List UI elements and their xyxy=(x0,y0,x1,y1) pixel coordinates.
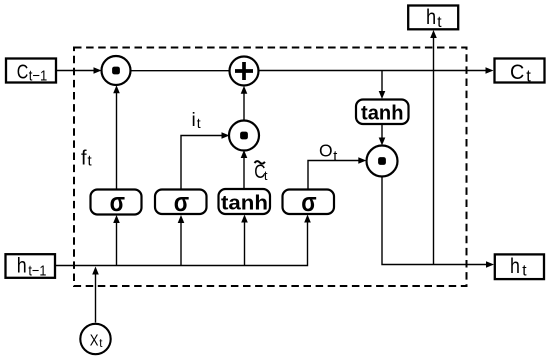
svg-text:f: f xyxy=(81,147,87,169)
box ht top xyxy=(408,6,458,31)
multiply node mult3 xyxy=(367,146,398,177)
box ht bottom xyxy=(495,254,544,279)
node xt xyxy=(80,324,110,354)
gate tanh2 xyxy=(356,100,409,125)
svg-text:t: t xyxy=(333,149,337,165)
box Ct xyxy=(495,59,545,86)
multiply node mult2 xyxy=(229,121,259,151)
svg-text:t: t xyxy=(437,14,442,31)
label ft xyxy=(81,147,93,169)
label it xyxy=(192,110,201,131)
svg-text:t: t xyxy=(197,115,201,131)
label C~t xyxy=(254,160,268,182)
wire mult1 to add xyxy=(131,70,230,72)
dashed cell boundary xyxy=(74,48,467,287)
wire feed sigma2 xyxy=(178,215,185,266)
wire branch down into tanh2 xyxy=(379,71,386,100)
box ht-1 xyxy=(6,254,56,279)
wire add to Ct box xyxy=(259,67,494,74)
svg-text:σ: σ xyxy=(174,188,190,217)
wire mult2 to add xyxy=(241,86,248,122)
wire sigma3 to mult3 xyxy=(308,157,366,189)
box Ct-1 xyxy=(6,59,56,85)
svg-text:X: X xyxy=(90,332,99,349)
label Ot xyxy=(319,141,337,165)
wire feed sigma1 xyxy=(113,215,120,266)
wire mult3 down and right to ht bottom box xyxy=(382,177,494,268)
svg-text:C: C xyxy=(17,59,29,82)
gate sigma3 xyxy=(283,188,335,217)
svg-text:i: i xyxy=(192,110,196,131)
svg-text:t: t xyxy=(526,67,531,85)
wire up to ht top box xyxy=(430,30,437,265)
svg-text:h: h xyxy=(510,255,520,279)
gate sigma1 xyxy=(91,188,142,217)
svg-text:C: C xyxy=(510,60,524,84)
svg-text:tanh: tanh xyxy=(221,192,268,215)
wire sigma1 to mult1 xyxy=(113,85,120,189)
wire Ct-1 to mult1 xyxy=(57,67,102,74)
svg-text:t: t xyxy=(264,168,268,183)
svg-text:σ: σ xyxy=(110,188,126,217)
wire tanh1 to mult2 xyxy=(241,150,248,189)
svg-text:tanh: tanh xyxy=(361,102,404,125)
svg-text:O: O xyxy=(319,141,333,161)
svg-text:t: t xyxy=(522,263,527,280)
multiply node mult1 xyxy=(102,56,131,85)
wire xt to ht-1 line xyxy=(92,267,99,323)
svg-text:t−1: t−1 xyxy=(28,262,46,279)
wire sigma2 to mult2 xyxy=(181,132,230,189)
wire tanh2 to mult3 xyxy=(379,124,386,146)
add node xyxy=(230,57,259,86)
wire feed tanh1 xyxy=(241,215,248,266)
svg-text:h: h xyxy=(426,6,436,30)
wire ht-1 line to sigma3 xyxy=(56,215,311,266)
gate tanh1 xyxy=(219,189,271,215)
svg-text:t−1: t−1 xyxy=(29,68,48,85)
svg-text:h: h xyxy=(17,254,27,278)
gate sigma2 xyxy=(155,188,207,217)
svg-text:σ: σ xyxy=(301,188,317,217)
